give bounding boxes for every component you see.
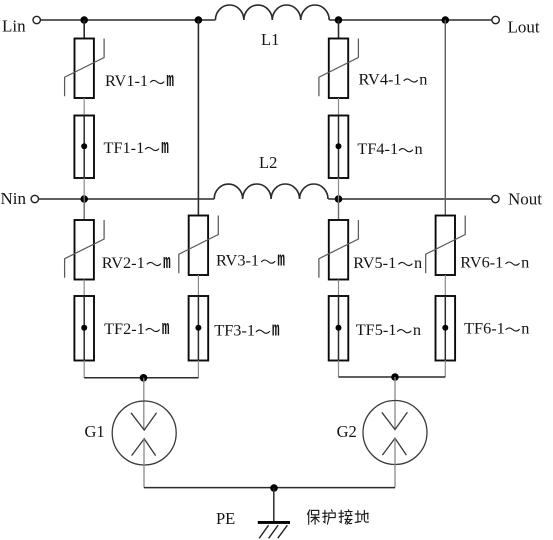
- wire TF6 to right bottom bus: [444, 361, 446, 378]
- svg-text:RV1-1: RV1-1: [105, 71, 148, 90]
- junction node G2 tap: [391, 373, 399, 381]
- inductor L2: [214, 184, 328, 199]
- wire RV3 to TF3: [197, 275, 199, 296]
- wire bus to G1: [143, 378, 145, 430]
- terminal Lin: [33, 16, 40, 23]
- svg-text:n: n: [413, 320, 421, 339]
- wire N line to RV5: [338, 199, 340, 220]
- svg-text:n: n: [521, 319, 529, 338]
- wire L line to RV4: [338, 20, 340, 39]
- gas discharge tube G1: [112, 401, 176, 465]
- svg-text:RV6-1: RV6-1: [460, 253, 503, 272]
- junction node G1 tap: [140, 374, 148, 382]
- wire L line to RV6 vertical bus: [444, 20, 446, 216]
- junction node PE tap: [270, 484, 278, 492]
- svg-text:m: m: [272, 320, 280, 343]
- wire RV1 to TF1: [83, 98, 85, 116]
- svg-text:Lout: Lout: [508, 18, 540, 37]
- wire G1 to earth bus: [143, 439, 145, 488]
- wire TF3 to left bottom bus: [197, 361, 199, 378]
- ground PE symbol: [258, 521, 290, 538]
- junction node N-A: [80, 195, 88, 203]
- wire PE tap to ground: [273, 488, 275, 522]
- svg-text:RV2-1: RV2-1: [102, 253, 145, 272]
- svg-text:TF2-1: TF2-1: [104, 319, 145, 338]
- terminal Nin: [31, 195, 38, 202]
- svg-text:L1: L1: [261, 30, 279, 49]
- wire RV6 to TF6: [444, 275, 446, 296]
- svg-text:TF6-1: TF6-1: [464, 319, 505, 338]
- svg-text:m: m: [161, 137, 169, 160]
- wire N line to RV2: [83, 199, 85, 220]
- wire L line right segment: [329, 19, 492, 21]
- wire L line left segment: [41, 19, 216, 21]
- terminal Lout: [492, 16, 499, 23]
- thermal fuse TF6: [436, 296, 456, 361]
- junction node L-C: [335, 16, 343, 24]
- wire N line left segment: [39, 198, 215, 200]
- varistor RV5: [319, 220, 359, 280]
- inductor L1: [215, 5, 329, 20]
- junction node L-B: [195, 16, 203, 24]
- svg-text:PE: PE: [216, 509, 235, 528]
- svg-text:n: n: [415, 139, 423, 158]
- junction node N-C: [335, 195, 343, 203]
- wire N line right segment: [328, 198, 491, 200]
- svg-text:m: m: [277, 250, 285, 273]
- gas discharge tube G2: [363, 401, 427, 465]
- svg-text:n: n: [419, 70, 427, 89]
- thermal fuse TF4: [329, 116, 349, 179]
- thermal fuse TF1: [74, 116, 94, 179]
- junction node L-D: [442, 16, 450, 24]
- svg-text:L2: L2: [259, 153, 277, 172]
- varistor RV1: [65, 39, 105, 99]
- label protective earth (Chinese): [308, 510, 369, 525]
- svg-text:Lin: Lin: [2, 17, 26, 36]
- svg-text:TF1-1: TF1-1: [104, 138, 145, 157]
- svg-text:Nin: Nin: [1, 189, 27, 208]
- varistor RV6: [426, 216, 466, 276]
- svg-text:TF3-1: TF3-1: [214, 321, 255, 340]
- wire L line to RV3 vertical bus: [197, 20, 199, 216]
- wire bus to G2: [394, 377, 396, 429]
- svg-text:RV3-1: RV3-1: [216, 251, 259, 270]
- svg-text:G2: G2: [337, 422, 357, 441]
- wire RV2 to TF2: [83, 280, 85, 297]
- varistor RV4: [319, 39, 359, 99]
- svg-text:RV5-1: RV5-1: [353, 253, 396, 272]
- terminal Nout: [492, 195, 499, 202]
- varistor RV2: [65, 220, 105, 280]
- svg-text:G1: G1: [85, 422, 105, 441]
- junction node L-A: [80, 16, 88, 24]
- thermal fuse TF3: [189, 296, 209, 361]
- varistor RV3: [179, 216, 219, 276]
- wire TF1 to N line: [83, 178, 85, 199]
- thermal fuse TF2: [74, 296, 94, 361]
- wire left bottom bus: [84, 377, 198, 379]
- svg-text:n: n: [414, 253, 422, 272]
- svg-text:m: m: [162, 318, 170, 341]
- wire RV5 to TF5: [338, 280, 340, 297]
- wire TF4 to N line: [338, 178, 340, 199]
- svg-text:TF4-1: TF4-1: [357, 139, 398, 158]
- wire TF2 to left bottom bus: [83, 361, 85, 378]
- svg-text:RV4-1: RV4-1: [359, 70, 402, 89]
- thermal fuse TF5: [329, 296, 349, 361]
- svg-text:m: m: [166, 70, 174, 93]
- svg-text:m: m: [163, 252, 171, 275]
- wire RV4 to TF4: [338, 98, 340, 116]
- svg-text:n: n: [521, 253, 529, 272]
- svg-text:Nout: Nout: [508, 190, 542, 209]
- wire TF5 to right bottom bus: [338, 361, 340, 378]
- wire Lin to RV1: [83, 20, 85, 39]
- svg-text:TF5-1: TF5-1: [356, 320, 397, 339]
- wire G2 to earth bus: [394, 438, 396, 488]
- wire right bottom bus: [339, 376, 446, 378]
- wire earth bus: [144, 487, 395, 489]
